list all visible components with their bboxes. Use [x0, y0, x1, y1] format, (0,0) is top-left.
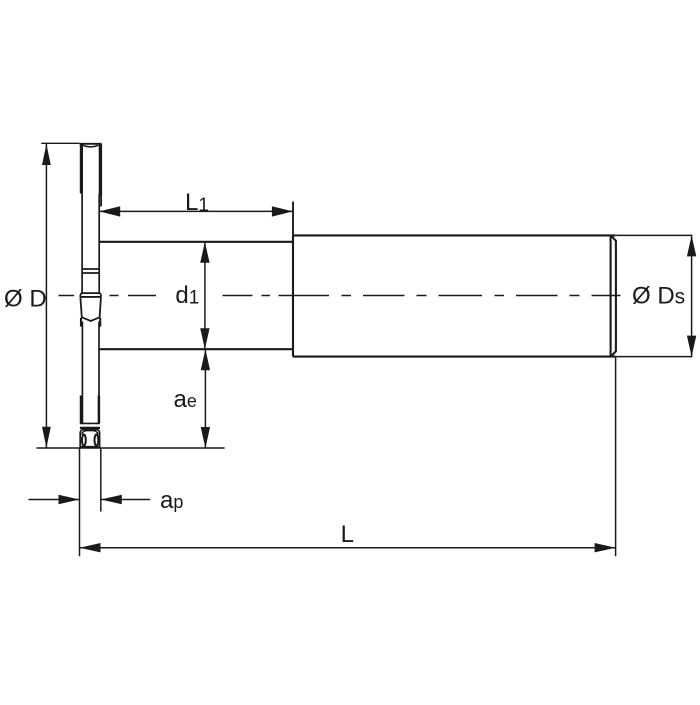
- svg-text:ae: ae: [174, 386, 197, 413]
- cutter pocket right tab: [99, 318, 101, 327]
- cutter disc top cap line: [80, 143, 102, 145]
- dim L right arrowhead: [595, 543, 616, 552]
- cutter bottom insert right bar: [98, 396, 101, 424]
- cutter bottom edge line: [80, 446, 101, 448]
- cutter joint double line lower: [82, 272, 99, 274]
- cutter bottom insert inner top curve: [82, 431, 99, 435]
- cutter disc top cap under-curve: [82, 145, 98, 147]
- dim d1 top arrowhead: [200, 242, 209, 263]
- shank bottom edge: [293, 356, 616, 358]
- cutter bottom insert left ellipse: [82, 435, 86, 446]
- svg-text:Ø Ds: Ø Ds: [632, 282, 685, 309]
- cutter lower body right edge: [98, 322, 100, 425]
- dim ODs vertical line: [691, 235, 693, 356]
- dim L left arrowhead: [80, 543, 101, 552]
- dim ODs extension bottom: [616, 356, 692, 358]
- shank top edge: [293, 234, 616, 236]
- dim ap left line: [29, 499, 80, 501]
- cutter joint double line upper: [82, 268, 99, 270]
- cutter collar right flare: [100, 293, 101, 297]
- dim d1 vertical line: [204, 242, 206, 349]
- svg-text:L1: L1: [185, 189, 209, 216]
- centerline dash-dot: [59, 295, 621, 297]
- cutter collar top line: [81, 292, 100, 294]
- shank right inner vertical: [610, 235, 612, 356]
- cutter pocket left tab: [80, 318, 82, 327]
- dim L1 extension at step: [292, 202, 294, 236]
- cutter bottom insert left bar: [80, 396, 83, 424]
- svg-text:ap: ap: [160, 487, 183, 514]
- dim ap right extension line: [100, 448, 102, 512]
- shank left step vertical: [292, 235, 294, 356]
- cutter bottom insert right ellipse: [95, 435, 99, 446]
- dim ae bottom arrowhead: [201, 427, 210, 448]
- dim ODs bottom arrowhead: [687, 336, 696, 357]
- cutter lower body left edge: [81, 322, 83, 425]
- cutter right outer edge upper: [100, 144, 102, 207]
- dim ODs extension top: [616, 234, 692, 236]
- dim L line: [80, 547, 616, 549]
- shank right chamfered end: [611, 235, 616, 356]
- neck top edge: [99, 241, 293, 243]
- dim L right extension line: [615, 357, 617, 556]
- cutter bottom seat line upper: [80, 422, 100, 424]
- cutter body right edge: [98, 194, 100, 293]
- dim left shared extension line: [79, 448, 81, 556]
- dim bottom shared extension line: [36, 447, 224, 449]
- svg-text:Ø D: Ø D: [4, 286, 47, 313]
- dim L1 line: [99, 210, 293, 212]
- dim ae vertical line: [204, 349, 206, 448]
- dim d1 bottom arrowhead: [200, 328, 209, 349]
- cutter collar left flare: [80, 293, 81, 297]
- svg-text:L: L: [341, 521, 354, 548]
- dim L1 right arrowhead: [272, 206, 293, 216]
- svg-text:d1: d1: [175, 282, 199, 309]
- dim OD vertical line: [45, 143, 47, 448]
- cutter bottom insert outline: [80, 430, 99, 448]
- cutter insert pocket trapezoid: [80, 298, 101, 321]
- neck bottom edge: [99, 348, 293, 350]
- cutter top insert left bar: [80, 145, 83, 194]
- dim L1 left arrowhead: [99, 206, 120, 216]
- dim ap left arrowhead: [59, 495, 80, 504]
- dim ODs top arrowhead: [687, 235, 696, 256]
- cutter collar bottom line: [80, 296, 102, 298]
- dim ae top arrowhead: [201, 349, 210, 370]
- cutter top insert right bar: [99, 145, 102, 196]
- dim OD top arrowhead: [42, 144, 51, 165]
- dim ap right line: [101, 499, 150, 501]
- dim OD bottom arrowhead: [42, 427, 51, 448]
- dim OD extension top: [41, 142, 79, 144]
- cutter bottom seat line lower: [80, 427, 100, 429]
- cutter body left edge: [81, 192, 83, 293]
- dim ap right arrowhead: [101, 495, 122, 504]
